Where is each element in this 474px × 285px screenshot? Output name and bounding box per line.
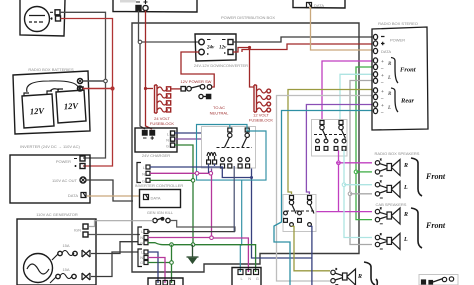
wire display data tan bbox=[309, 8, 372, 51]
wire relay C out navy bbox=[310, 226, 312, 285]
svg-text:Front: Front bbox=[425, 172, 446, 181]
bracket cab rear bbox=[364, 262, 375, 285]
wire bank positive bbox=[146, 11, 153, 130]
svg-text:NEUTRAL: NEUTRAL bbox=[210, 111, 229, 116]
svg-text:Rear: Rear bbox=[400, 98, 414, 105]
node N junction 2 bbox=[195, 172, 199, 176]
wire generator outlet2 to connector g2 bbox=[91, 252, 138, 277]
wire g2 L navy to outlet bbox=[148, 252, 158, 283]
wire ltcyan to radio L+ bbox=[344, 184, 372, 186]
svg-text:+: + bbox=[381, 104, 384, 109]
svg-text:DATA: DATA bbox=[68, 193, 78, 198]
node g1 L junction bbox=[147, 230, 150, 233]
radio box stereo bbox=[372, 27, 428, 130]
svg-text:INVERTER CONTROLLER: INVERTER CONTROLLER bbox=[135, 183, 184, 188]
svg-text:POWER: POWER bbox=[56, 159, 71, 164]
wire kill left to IGN1 bbox=[89, 221, 153, 227]
wire green to radio R- bbox=[356, 171, 372, 173]
svg-text:12V POWER SW: 12V POWER SW bbox=[181, 79, 212, 84]
svg-text:N: N bbox=[142, 171, 145, 176]
svg-text:12v: 12v bbox=[219, 46, 227, 51]
svg-text:DATA: DATA bbox=[381, 49, 391, 54]
svg-text:DATA: DATA bbox=[151, 196, 161, 201]
12 volt fuseblock bbox=[254, 85, 271, 112]
wire downconverter negative to stereo - bbox=[233, 37, 372, 42]
wire stereo front -R green bbox=[356, 67, 372, 220]
svg-text:G: G bbox=[140, 260, 143, 265]
wire bank negative bbox=[139, 11, 146, 130]
wire g2 N magenta to outlet bbox=[148, 258, 165, 284]
wire g1 L to relay A bbox=[148, 231, 235, 233]
node L-relay bbox=[250, 176, 253, 179]
svg-text:RADIO BOX STEREO: RADIO BOX STEREO bbox=[378, 21, 418, 26]
svg-text:FUSEBLOCK: FUSEBLOCK bbox=[249, 118, 274, 123]
svg-text:110V AC GENERATOR: 110V AC GENERATOR bbox=[36, 212, 78, 217]
svg-text:CAB SPEAKERS: CAB SPEAKERS bbox=[376, 202, 407, 207]
wire charger L navy bbox=[175, 133, 312, 258]
svg-text:L: L bbox=[403, 185, 408, 191]
svg-text:L: L bbox=[403, 237, 408, 243]
cut-off script mark bbox=[376, 279, 377, 285]
accessory switch box bbox=[419, 275, 458, 285]
svg-text:L: L bbox=[387, 106, 391, 111]
cab speaker L bbox=[375, 233, 400, 249]
wire kill right to IGN2 bbox=[89, 221, 236, 235]
ground bbox=[187, 245, 199, 264]
node grey front -L bbox=[348, 192, 352, 196]
wire stereo rear -R pale grey bbox=[277, 96, 373, 282]
svg-text:POWER: POWER bbox=[390, 38, 405, 43]
svg-text:12V: 12V bbox=[64, 101, 80, 112]
bracket stereo rear bbox=[391, 88, 398, 112]
svg-text:24v: 24v bbox=[206, 46, 215, 51]
node green 3 bbox=[170, 261, 174, 265]
junction battery negative bbox=[104, 79, 108, 83]
svg-text:DATA: DATA bbox=[314, 3, 324, 8]
svg-text:110V AC OUT: 110V AC OUT bbox=[52, 178, 78, 183]
svg-text:FUSEBLOCK: FUSEBLOCK bbox=[150, 121, 175, 126]
svg-text:R: R bbox=[403, 212, 408, 218]
radio speaker front L bbox=[375, 180, 400, 198]
svg-text:24V CHARGER: 24V CHARGER bbox=[142, 153, 170, 158]
svg-text:Front: Front bbox=[400, 67, 416, 74]
AC outlet connector bottom bbox=[148, 278, 183, 285]
svg-text:IGN: IGN bbox=[74, 228, 81, 233]
node green 2 bbox=[191, 243, 195, 247]
bracket radio speakers bbox=[411, 158, 422, 196]
wire 12V to stereo power + bbox=[242, 44, 372, 52]
wire AC L navy bus bbox=[150, 167, 252, 178]
wire charger G green bbox=[175, 145, 193, 245]
radio box batteries bbox=[13, 71, 111, 134]
wire AC N magenta bus bbox=[150, 173, 212, 238]
node bank negative tap bbox=[138, 40, 142, 44]
wire magenta to outlet connector bbox=[212, 238, 249, 272]
wire downconverter 12V out to 12V fuseblock bbox=[233, 48, 254, 88]
node green 1 bbox=[170, 243, 174, 247]
radio speaker front R bbox=[375, 159, 400, 177]
svg-text:RADIO BOX BATTERIES: RADIO BOX BATTERIES bbox=[28, 67, 74, 72]
wire relay B out magenta to speakers bbox=[316, 150, 372, 211]
node magenta radio R+ bbox=[337, 161, 341, 165]
svg-text:INVERTER (24V DC → 110V AC): INVERTER (24V DC → 110V AC) bbox=[20, 144, 80, 149]
svg-text:GEN IGN KILL: GEN IGN KILL bbox=[147, 210, 174, 215]
speaker relay B bbox=[312, 120, 348, 157]
24 volt fuseblock bbox=[155, 85, 171, 113]
wire stereo rear +L purple bbox=[306, 105, 372, 197]
generator bbox=[17, 219, 96, 285]
generator outlet connector g1 bbox=[138, 227, 148, 245]
svg-text:24V-12V DOWNCONVERTER: 24V-12V DOWNCONVERTER bbox=[194, 63, 248, 68]
node 12V branch bbox=[248, 46, 251, 49]
svg-text:N: N bbox=[166, 138, 169, 143]
node magenta bbox=[210, 236, 214, 240]
node G junction bbox=[191, 179, 195, 183]
svg-text:Front: Front bbox=[425, 221, 446, 230]
wire relay B out ltcyan to speakers bbox=[344, 150, 372, 237]
speaker relay C bbox=[283, 195, 316, 232]
wire relay coil stubs bbox=[209, 164, 215, 173]
wire bank negative to downconverter bbox=[142, 41, 198, 43]
node green front -R bbox=[354, 170, 358, 174]
24V-12V downconverter U3 bbox=[195, 34, 236, 61]
wire charger N bbox=[175, 139, 212, 172]
wire generator outlet1 to connector g1 bbox=[91, 242, 138, 254]
inverter controller U5 bbox=[140, 190, 181, 208]
wire charger negative to inverter bbox=[60, 12, 106, 158]
generator outlet connector g2 bbox=[138, 249, 148, 267]
svg-text:G: G bbox=[166, 144, 169, 149]
junction battery positive bbox=[111, 87, 114, 90]
svg-text:12V: 12V bbox=[30, 106, 46, 117]
svg-text:+: + bbox=[381, 60, 384, 65]
battery bank connector box bbox=[113, 0, 197, 12]
node ltcyan radio L+ bbox=[342, 183, 346, 187]
inverter U2 bbox=[10, 155, 90, 203]
mains outlet connector bottom middle bbox=[232, 268, 261, 285]
data display box bbox=[293, 0, 345, 8]
wire stereo front +R magenta bbox=[322, 61, 372, 120]
wire stereo front +L light cyan bbox=[340, 74, 372, 120]
svg-text:R: R bbox=[403, 163, 408, 169]
svg-text:R: R bbox=[357, 274, 362, 280]
wire relay C out olive bbox=[292, 226, 331, 270]
inverter AC connector bracket bbox=[137, 163, 150, 183]
cab rear speaker R bbox=[331, 268, 356, 285]
svg-text:G: G bbox=[140, 240, 143, 245]
svg-text:TO AC: TO AC bbox=[213, 105, 225, 110]
wire switch to downconverter input bbox=[181, 52, 214, 87]
wire magenta to radio R+ bbox=[336, 162, 372, 164]
svg-text:15A: 15A bbox=[62, 243, 69, 248]
node bank positive tap bbox=[144, 87, 147, 90]
svg-text:POWER DISTRIBUTION BOX: POWER DISTRIBUTION BOX bbox=[221, 15, 275, 20]
wire stereo rear -L teal bbox=[274, 111, 372, 285]
wire stereo front -L grey bbox=[350, 81, 372, 245]
svg-text:–: – bbox=[380, 81, 384, 86]
24V charger U4 bbox=[135, 128, 177, 152]
svg-text:–: – bbox=[380, 97, 384, 102]
power distribution box bbox=[132, 23, 359, 272]
battery charger U1 bbox=[20, 0, 65, 36]
wire g1 N magenta bbox=[148, 237, 212, 239]
wire bank positive to fuseblock bbox=[146, 88, 154, 90]
AC transfer relay A bbox=[202, 127, 256, 169]
wire green to outlet bbox=[171, 245, 173, 283]
wire navy L bus join bbox=[233, 166, 235, 232]
svg-text:L: L bbox=[387, 76, 391, 81]
svg-text:15A: 15A bbox=[62, 267, 69, 272]
bracket stereo front bbox=[391, 58, 398, 84]
node N junction bbox=[209, 172, 213, 176]
svg-text:+: + bbox=[381, 90, 384, 95]
svg-text:G: G bbox=[256, 276, 259, 281]
svg-text:–: – bbox=[380, 67, 384, 72]
wire stereo rear +R olive bbox=[288, 90, 372, 197]
wire AC G green bus bbox=[150, 179, 193, 181]
svg-text:N: N bbox=[248, 276, 251, 281]
wire inverter data bbox=[87, 195, 141, 197]
wire g1 G green bus bbox=[148, 243, 256, 272]
cab speaker R bbox=[375, 207, 400, 224]
wire grey to radio L- bbox=[350, 193, 372, 195]
wire g2 G to green bus bbox=[148, 262, 172, 264]
svg-text:–: – bbox=[380, 111, 384, 116]
svg-text:RADIO BOX SPEAKERS: RADIO BOX SPEAKERS bbox=[375, 151, 420, 156]
teal neutral loop bbox=[197, 125, 267, 273]
wire inverter AC out bbox=[86, 180, 133, 201]
svg-text:+: + bbox=[381, 74, 384, 79]
bracket cab speakers bbox=[411, 208, 422, 248]
wire charger positive to inverter bbox=[61, 19, 113, 167]
